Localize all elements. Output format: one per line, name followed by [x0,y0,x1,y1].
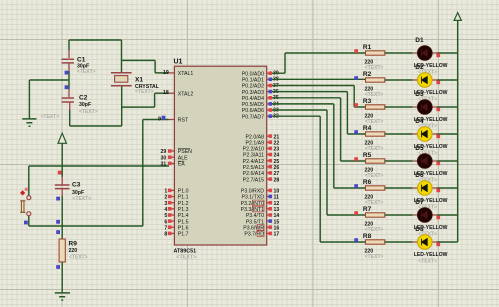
svg-text:D1: D1 [415,37,424,44]
svg-text:U1: U1 [174,59,183,66]
svg-text:P0.7/AD7: P0.7/AD7 [242,114,264,120]
svg-text:P0.4/AD4: P0.4/AD4 [242,96,264,102]
svg-text:19: 19 [163,70,169,76]
svg-text:12: 12 [274,201,280,207]
svg-text:30pF: 30pF [79,102,91,108]
svg-text:28: 28 [274,177,280,183]
svg-text:P1.0: P1.0 [178,189,189,195]
svg-text:14: 14 [274,213,280,219]
svg-text:11: 11 [274,195,280,201]
svg-text:8: 8 [164,232,167,238]
svg-text:1: 1 [164,189,167,195]
svg-text:18: 18 [163,90,169,96]
svg-text:EA: EA [178,162,185,168]
svg-text:D7: D7 [415,199,424,206]
svg-text:P2.4/A12: P2.4/A12 [243,159,264,165]
svg-text:24: 24 [274,153,280,159]
svg-text:R4: R4 [363,125,372,132]
svg-text:<TEXT>: <TEXT> [418,258,437,264]
svg-text:7: 7 [164,225,167,231]
svg-text:P1.6: P1.6 [178,225,189,231]
svg-text:27: 27 [274,171,280,177]
svg-text:P3.4/T0: P3.4/T0 [246,213,264,219]
svg-text:C3: C3 [72,182,81,189]
svg-text:AT89C51: AT89C51 [174,248,197,254]
svg-text:9: 9 [158,116,161,122]
svg-text:16: 16 [274,225,280,231]
svg-text:30pF: 30pF [72,190,84,196]
svg-text:D3: D3 [415,91,424,98]
svg-text:P0.3/AD3: P0.3/AD3 [242,90,264,96]
svg-text:<TEXT>: <TEXT> [79,109,98,115]
svg-text:P1.5: P1.5 [178,219,189,225]
svg-text:C1: C1 [77,56,86,63]
svg-text:R5: R5 [363,152,372,159]
svg-text:R8: R8 [363,233,372,240]
svg-text:P3.0/RXD: P3.0/RXD [241,189,264,195]
svg-text:XTAL2: XTAL2 [178,91,194,97]
svg-text:29: 29 [161,149,167,155]
svg-text:R6: R6 [363,179,372,186]
svg-text:P1.2: P1.2 [178,201,189,207]
svg-text:30: 30 [161,155,167,161]
svg-text:P2.3/A11: P2.3/A11 [243,153,264,159]
svg-text:<TEXT>: <TEXT> [77,69,96,75]
svg-text:P0.0/AD0: P0.0/AD0 [242,71,264,77]
svg-text:PSEN: PSEN [178,149,192,155]
svg-text:ALE: ALE [178,155,188,161]
svg-text:4: 4 [164,207,167,213]
svg-text:P1.1: P1.1 [178,195,189,201]
svg-text:10: 10 [274,189,280,195]
svg-text:R9: R9 [69,241,78,248]
svg-text:31: 31 [161,162,167,168]
svg-text:P2.5/A13: P2.5/A13 [243,165,264,171]
svg-text:22: 22 [274,140,280,146]
svg-text:P0.5/AD5: P0.5/AD5 [242,102,264,108]
svg-text:P1.3: P1.3 [178,207,189,213]
svg-text:R1: R1 [363,44,372,51]
svg-text:R3: R3 [363,98,372,105]
svg-text:5: 5 [164,213,167,219]
svg-text:13: 13 [274,207,280,213]
svg-text:17: 17 [274,232,280,238]
svg-text:<TEXT>: <TEXT> [73,196,92,202]
svg-text:LED-YELLOW: LED-YELLOW [414,252,448,258]
svg-text:6: 6 [164,219,167,225]
svg-text:XTAL1: XTAL1 [178,71,194,77]
svg-text:<TEXT>: <TEXT> [135,89,154,95]
svg-text:220: 220 [69,248,78,254]
svg-text:<TEXT>: <TEXT> [176,254,196,260]
svg-text:P2.2/A10: P2.2/A10 [243,147,264,153]
svg-text:15: 15 [274,219,280,225]
svg-text:C2: C2 [79,95,88,102]
svg-text:<TEXT>: <TEXT> [41,114,60,120]
svg-text:R2: R2 [363,71,372,78]
svg-text:P2.7/A15: P2.7/A15 [243,177,264,183]
svg-text:P2.6/A14: P2.6/A14 [243,171,264,177]
svg-text:X1: X1 [135,76,143,83]
svg-text:<TEXT>: <TEXT> [69,254,88,260]
svg-text:P0.6/AD6: P0.6/AD6 [242,108,264,114]
svg-text:25: 25 [274,159,280,165]
svg-text:23: 23 [274,147,280,153]
svg-text:21: 21 [274,134,280,140]
svg-text:D4: D4 [415,118,424,125]
svg-text:P0.1/AD1: P0.1/AD1 [242,78,264,84]
svg-text:P0.2/AD2: P0.2/AD2 [242,84,264,90]
svg-text:<TEXT>: <TEXT> [365,254,384,260]
svg-text:P2.0/A8: P2.0/A8 [246,134,265,140]
svg-text:3: 3 [164,201,167,207]
svg-text:P1.4: P1.4 [178,213,189,219]
svg-text:P2.1/A9: P2.1/A9 [246,140,265,146]
svg-text:R7: R7 [363,206,372,213]
svg-text:26: 26 [274,165,280,171]
svg-text:D2: D2 [415,64,424,71]
svg-text:P1.7: P1.7 [178,232,189,238]
svg-text:D6: D6 [415,172,424,179]
svg-text:D8: D8 [415,226,424,233]
svg-text:RST: RST [178,118,189,124]
svg-text:2: 2 [164,195,167,201]
svg-text:D5: D5 [415,145,424,152]
